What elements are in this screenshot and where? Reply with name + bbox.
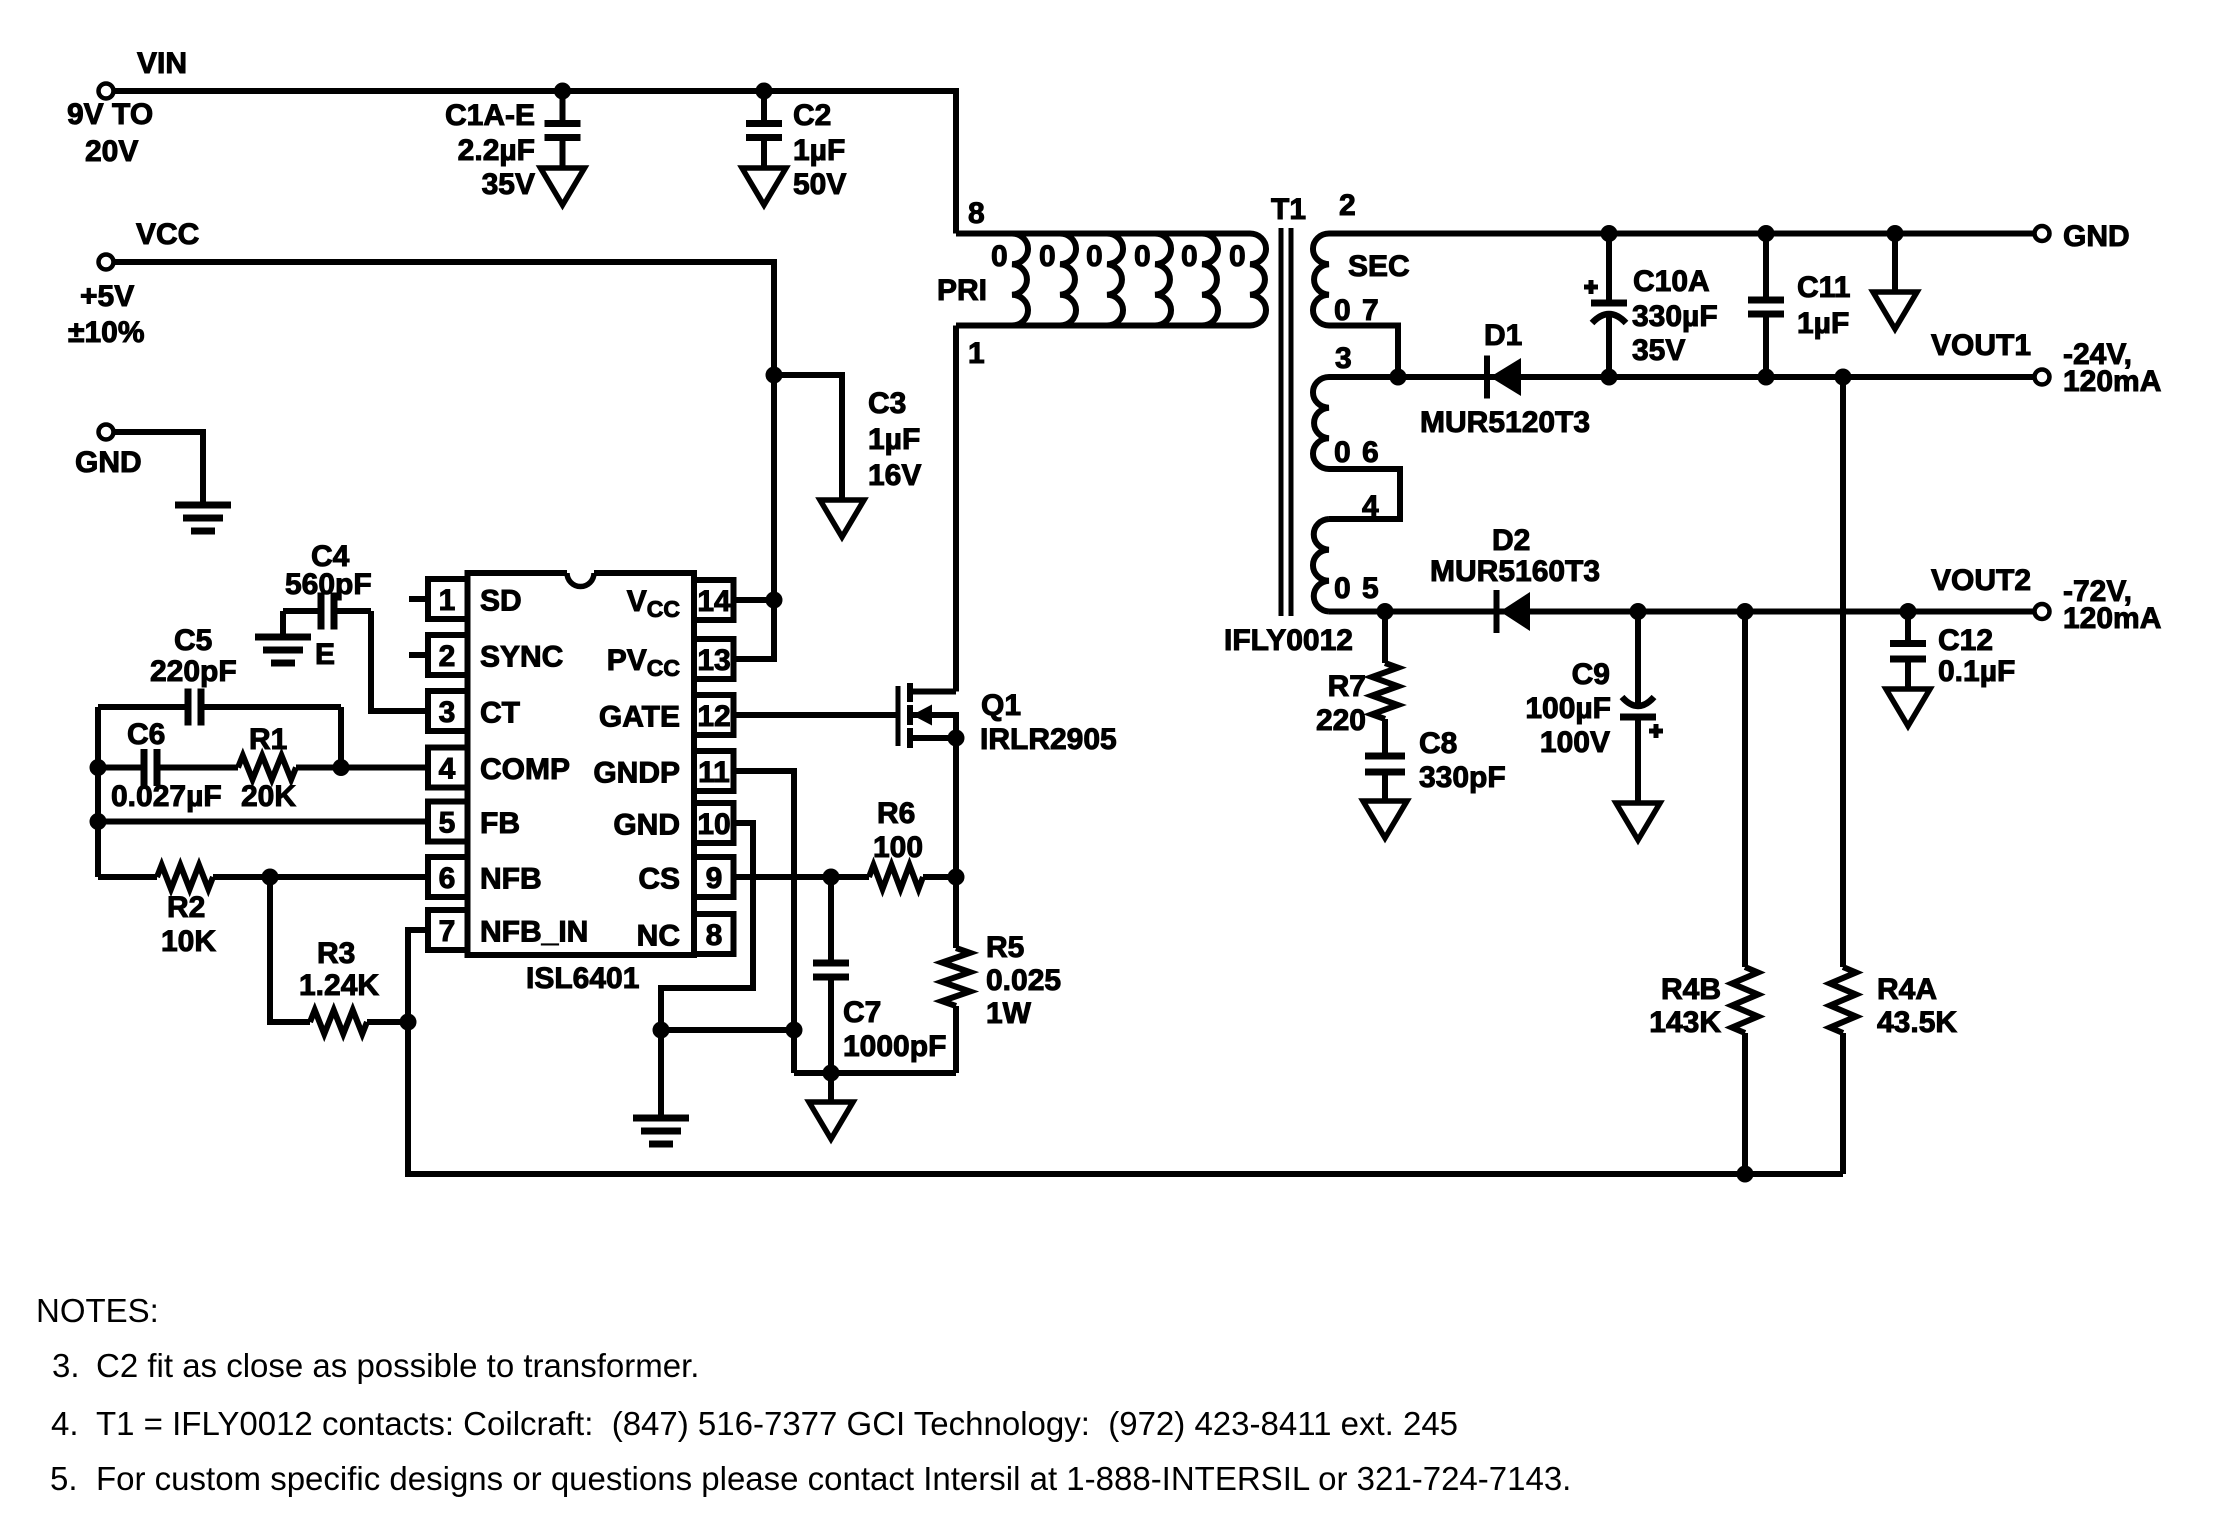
notes text [36, 1292, 1571, 1497]
svg-text:R4B: R4B [1661, 973, 1721, 1006]
svg-text:VCC: VCC [136, 218, 199, 251]
svg-text:+5V: +5V [80, 280, 134, 313]
wire VOUT1 rail [1329, 374, 2035, 380]
wire VOUT2 rail [1329, 609, 2035, 615]
svg-text:GATE: GATE [599, 701, 680, 734]
resistor R4B [1732, 967, 1758, 1033]
svg-text:1.24K: 1.24K [299, 969, 379, 1002]
svg-text:2: 2 [1339, 189, 1356, 222]
svg-text:2: 2 [439, 640, 456, 673]
capacitor C12 [1890, 612, 1926, 690]
junction VCC/C3 [766, 367, 782, 383]
IC pin 2 box [428, 635, 468, 675]
svg-text:C2: C2 [793, 99, 831, 132]
capacitor C10A [1591, 234, 1627, 378]
wire stub to ground arrow [828, 1073, 834, 1102]
svg-text:T1: T1 [1271, 193, 1306, 226]
junction VIN/C1A-E [555, 83, 571, 99]
T1 primary winding 5 [1202, 234, 1218, 326]
svg-text:43.5K: 43.5K [1877, 1006, 1957, 1039]
svg-text:C8: C8 [1419, 727, 1457, 760]
svg-text:8: 8 [968, 197, 985, 230]
junction sec pin 3 [1390, 369, 1406, 385]
svg-text:D2: D2 [1492, 524, 1530, 557]
svg-text:560pF: 560pF [285, 568, 372, 601]
svg-text:1µF: 1µF [1797, 307, 1849, 340]
junction VOUT1/C10A [1601, 369, 1617, 385]
svg-text:R7: R7 [1328, 670, 1366, 703]
terminal VOUT2 [2035, 604, 2050, 619]
earth ground below pin 10 [633, 1118, 689, 1144]
svg-text:C10A: C10A [1633, 265, 1710, 298]
svg-text:7: 7 [1362, 294, 1379, 327]
junction GND/C10A [1601, 226, 1617, 242]
transformer T1 primary top rail [956, 231, 1250, 237]
svg-text:0: 0 [1334, 572, 1351, 605]
pin 2 stub [409, 652, 428, 658]
svg-text:COMP: COMP [480, 753, 570, 786]
junction GND/arrow [1887, 226, 1903, 242]
junction GND/C11 [1758, 226, 1774, 242]
capacitor C8 [1365, 752, 1405, 801]
svg-text:5: 5 [1362, 572, 1379, 605]
IC pin 6 box [428, 857, 468, 897]
svg-text:1000pF: 1000pF [843, 1030, 946, 1063]
svg-text:20K: 20K [241, 780, 296, 813]
svg-text:For custom specific designs or: For custom specific designs or questions… [96, 1460, 1571, 1497]
wire VCC to pin 13 [113, 262, 774, 659]
svg-text:ISL6401: ISL6401 [526, 962, 639, 995]
capacitor C6 [98, 749, 238, 786]
svg-text:35V: 35V [1632, 334, 1685, 367]
IC pin 12 box [694, 695, 734, 735]
svg-text:7: 7 [439, 915, 456, 948]
svg-text:0: 0 [1229, 240, 1246, 273]
svg-text:D1: D1 [1484, 319, 1522, 352]
ground below C1A-E [541, 168, 585, 205]
wire C7 bottom rail [794, 1070, 956, 1076]
svg-text:Q1: Q1 [981, 689, 1021, 722]
svg-text:R6: R6 [877, 797, 915, 830]
svg-text:VOUT1: VOUT1 [1931, 329, 2031, 362]
T1 primary winding 4 [1155, 234, 1171, 326]
svg-text:0: 0 [1334, 436, 1351, 469]
svg-text:C12: C12 [1938, 624, 1993, 657]
svg-text:8: 8 [706, 919, 723, 952]
svg-text:10K: 10K [161, 925, 216, 958]
svg-text:C2 fit as close as possible to: C2 fit as close as possible to transform… [96, 1347, 699, 1384]
ground below C3 [820, 500, 864, 537]
junction R6/R5 [948, 869, 964, 885]
svg-text:220: 220 [1316, 704, 1366, 737]
svg-text:5.: 5. [50, 1460, 78, 1497]
svg-text:16V: 16V [868, 459, 921, 492]
IC notch [567, 573, 594, 587]
svg-text:120mA: 120mA [2063, 602, 2161, 635]
svg-text:220pF: 220pF [150, 655, 237, 688]
wire Q1 source to R5 [953, 738, 959, 948]
resistor R2 [157, 865, 213, 889]
IC pin 1 box [428, 579, 468, 619]
ground below C8 [1363, 801, 1407, 838]
transformer T1 core [1281, 228, 1291, 616]
earth ground E [255, 637, 311, 663]
wire C4 to ground E [280, 611, 286, 637]
wire R4A top lead [1840, 377, 1846, 967]
wire R5 bottom lead [953, 1006, 959, 1073]
svg-text:IFLY0012: IFLY0012 [1224, 624, 1353, 657]
svg-text:0.1µF: 0.1µF [1938, 655, 2015, 688]
T1 primary winding 2 [1060, 234, 1076, 326]
wire R1 to pin 4 [296, 765, 428, 771]
svg-text:35V: 35V [482, 168, 535, 201]
svg-text:FB: FB [480, 807, 520, 840]
svg-text:120mA: 120mA [2063, 365, 2161, 398]
junction Q1 source [948, 730, 964, 746]
svg-text:R4A: R4A [1877, 973, 1937, 1006]
svg-text:NFB: NFB [480, 863, 542, 896]
terminal VIN [99, 84, 114, 99]
earth ground at GND input [175, 505, 231, 531]
capacitor C3 branch wire [774, 375, 842, 499]
svg-text:4: 4 [439, 753, 456, 786]
ground below C2 [742, 168, 786, 205]
svg-text:143K: 143K [1649, 1006, 1721, 1039]
wire FB line [98, 819, 428, 825]
wire C5 right leg down to COMP line [338, 707, 344, 768]
ground below C12 [1886, 689, 1930, 726]
resistor R7 [1372, 663, 1398, 719]
terminal VOUT1 [2035, 370, 2050, 385]
svg-text:VOUT2: VOUT2 [1931, 564, 2031, 597]
junction left loop/FB [90, 814, 106, 830]
svg-text:E: E [315, 638, 335, 671]
junction R2/R3 [262, 869, 278, 885]
svg-text:330µF: 330µF [1632, 300, 1718, 333]
IC pin 7 box [428, 910, 468, 950]
svg-text:50V: 50V [793, 168, 846, 201]
svg-text:PRI: PRI [937, 274, 987, 307]
wire pin10-GNDP link [661, 1027, 794, 1033]
svg-text:0.027µF: 0.027µF [111, 780, 222, 813]
svg-text:4.: 4. [51, 1405, 79, 1442]
svg-text:6: 6 [439, 862, 456, 895]
junction VOUT2/C12 [1900, 604, 1916, 620]
svg-text:330pF: 330pF [1419, 761, 1506, 794]
svg-text:C5: C5 [174, 624, 212, 657]
svg-text:GND: GND [2063, 220, 2130, 253]
junction VOUT1/C11 [1758, 369, 1774, 385]
svg-text:SD: SD [480, 585, 522, 618]
wire sec pin7 jog [1329, 326, 1398, 378]
svg-text:100V: 100V [1540, 726, 1610, 759]
T1 secondary winding 2-7 [1313, 234, 1329, 326]
svg-text:0: 0 [1334, 294, 1351, 327]
junction bottom rail/R4B [1737, 1166, 1753, 1182]
svg-text:C9: C9 [1572, 658, 1610, 691]
svg-text:C6: C6 [127, 718, 165, 751]
resistor R6 [869, 865, 923, 889]
terminal GND output [2035, 226, 2050, 241]
svg-text:0: 0 [1086, 240, 1103, 273]
svg-text:T1 = IFLY0012 contacts: Coilcr: T1 = IFLY0012 contacts: Coilcraft: (847)… [96, 1405, 1458, 1442]
svg-text:NOTES:: NOTES: [36, 1292, 159, 1329]
svg-text:CT: CT [480, 697, 520, 730]
resistor R4A [1830, 967, 1856, 1033]
ground arrow below C7 [809, 1102, 853, 1139]
IC pin 4 box [428, 748, 468, 788]
IC pin 8 box [694, 914, 734, 954]
wire pin 7 connection [367, 930, 428, 1022]
svg-text:0: 0 [1039, 240, 1056, 273]
IC pin 5 box [428, 802, 468, 842]
svg-text:1µF: 1µF [793, 134, 845, 167]
svg-text:GND: GND [75, 446, 142, 479]
svg-text:0: 0 [1134, 240, 1151, 273]
wire pin 10 GND down [661, 823, 753, 1118]
svg-text:R5: R5 [986, 931, 1024, 964]
wire R4B top lead [1742, 612, 1748, 968]
wire GND output rail [1329, 231, 2035, 237]
terminal GND input [99, 425, 114, 440]
wire pin 14 stub [734, 597, 774, 603]
T1 primary winding 3 [1107, 234, 1123, 326]
svg-text:IRLR2905: IRLR2905 [980, 723, 1117, 756]
wire bottom rail [408, 1022, 1843, 1174]
IC pin 13 box [694, 639, 734, 679]
capacitor C2 [746, 91, 782, 168]
svg-text:13: 13 [697, 644, 730, 677]
transformer T1 primary bottom rail [956, 323, 1250, 329]
wire R2 junction down to R3 [270, 877, 310, 1022]
svg-text:SYNC: SYNC [480, 641, 563, 674]
svg-text:5: 5 [439, 807, 456, 840]
IC pin 14 box [694, 580, 734, 620]
svg-text:CS: CS [638, 863, 680, 896]
svg-text:VIN: VIN [137, 47, 187, 80]
T1 primary winding 1 [1012, 234, 1028, 326]
IC pin 11 box [694, 751, 734, 791]
junction C5/COMP [333, 760, 349, 776]
svg-text:3: 3 [1335, 342, 1352, 375]
svg-text:20V: 20V [85, 135, 138, 168]
svg-text:R2: R2 [167, 891, 205, 924]
terminal VCC [99, 255, 114, 270]
svg-text:NFB_IN: NFB_IN [480, 916, 588, 949]
wire GND input [113, 432, 203, 505]
junction sec pin5/R7 [1377, 604, 1393, 620]
IC U1 ISL6401 body [468, 573, 695, 955]
capacitor C11 [1748, 234, 1784, 378]
svg-text:MUR5160T3: MUR5160T3 [1430, 555, 1600, 588]
junction left loop/COMP [90, 760, 106, 776]
svg-text:GND: GND [613, 809, 680, 842]
wire R6 to Q1 source [923, 874, 956, 880]
wire pin 9 CS [734, 874, 869, 880]
svg-text:1: 1 [968, 337, 985, 370]
junction VOUT2/C9 [1630, 604, 1646, 620]
svg-text:100µF: 100µF [1525, 692, 1611, 725]
capacitor C4 [283, 593, 371, 630]
junction VIN/C2 [756, 83, 772, 99]
junction CS/C7 [823, 869, 839, 885]
svg-text:9V TO: 9V TO [67, 98, 153, 131]
svg-text:MUR5120T3: MUR5120T3 [1420, 406, 1590, 439]
svg-text:GNDP: GNDP [593, 757, 680, 790]
svg-text:0: 0 [991, 240, 1008, 273]
wire pin 11 GNDP down [734, 771, 794, 1073]
capacitor C9 [1620, 612, 1656, 804]
svg-text:R1: R1 [249, 723, 287, 756]
svg-text:1W: 1W [986, 997, 1032, 1030]
svg-text:3.: 3. [52, 1347, 80, 1384]
diode D1 MUR5120T3 [1487, 356, 1521, 399]
wire R7 top lead [1382, 612, 1388, 664]
wire left loop vertical [95, 707, 101, 877]
ground below C9 [1616, 803, 1660, 840]
resistor R5 [942, 948, 970, 1006]
wire pin 12 GATE to Q1 [734, 712, 896, 718]
IC pin 10 box [694, 803, 734, 843]
svg-text:0.025: 0.025 [986, 964, 1061, 997]
wire R4A bottom lead [1840, 1033, 1846, 1174]
svg-text:C1A-E: C1A-E [445, 99, 535, 132]
svg-text:9: 9 [706, 862, 723, 895]
wire stub GND arrow [1892, 234, 1898, 293]
wire R4B bottom lead [1742, 1033, 1748, 1174]
svg-text:10: 10 [697, 808, 730, 841]
junction C7/ground arrow [823, 1065, 839, 1081]
svg-text:0: 0 [1181, 240, 1198, 273]
plus sign C9 [1649, 724, 1663, 738]
svg-text:6: 6 [1362, 436, 1379, 469]
capacitor C5 [98, 689, 341, 726]
svg-text:1µF: 1µF [868, 423, 920, 456]
diode D2 MUR5160T3 [1497, 590, 1531, 633]
wire VIN rail to transformer pin 8 [113, 91, 956, 234]
svg-text:12: 12 [697, 700, 730, 733]
capacitor C7 [813, 877, 849, 1073]
resistor R3 [310, 1010, 367, 1034]
junction pin10 ground [653, 1022, 669, 1038]
ground arrow on GND rail [1873, 292, 1917, 329]
svg-text:C3: C3 [868, 387, 906, 420]
T1 primary winding 6 [1250, 234, 1266, 326]
wire C4 to pin 3 [371, 611, 428, 711]
svg-text:100: 100 [873, 831, 923, 864]
wire sec pin6-pin4 jog [1329, 469, 1400, 519]
svg-text:C7: C7 [843, 996, 881, 1029]
wire R7 to C8 [1382, 719, 1388, 752]
junction R3/pin7/bottom rail [400, 1014, 416, 1030]
svg-text:14: 14 [697, 585, 731, 618]
capacitor C1A-E [545, 91, 581, 168]
svg-text:3: 3 [439, 696, 456, 729]
svg-text:2.2µF: 2.2µF [458, 134, 535, 167]
T1 secondary winding 3-6 [1313, 377, 1329, 469]
svg-text:SEC: SEC [1348, 250, 1410, 283]
plus sign C10A [1584, 280, 1598, 294]
svg-text:1: 1 [439, 584, 456, 617]
transistor Q1 IRLR2905 [898, 326, 956, 749]
wire NFB line left [98, 874, 157, 880]
IC pin 9 box [694, 857, 734, 897]
svg-text:C11: C11 [1797, 271, 1850, 304]
pin 1 stub [409, 596, 428, 602]
junction VOUT2/R4B [1737, 604, 1753, 620]
junction GNDP/ground line [786, 1022, 802, 1038]
svg-text:R3: R3 [317, 937, 355, 970]
svg-text:NC: NC [637, 920, 680, 953]
resistor R1 [238, 756, 296, 780]
svg-text:±10%: ±10% [68, 316, 145, 349]
junction VOUT1/R4A [1835, 369, 1851, 385]
wire R2 to pin 6 [213, 874, 428, 880]
IC pin 3 box [428, 691, 468, 731]
junction VCC/pin14 [766, 592, 782, 608]
svg-text:11: 11 [698, 756, 730, 789]
T1 secondary winding 4-5 [1313, 519, 1329, 612]
